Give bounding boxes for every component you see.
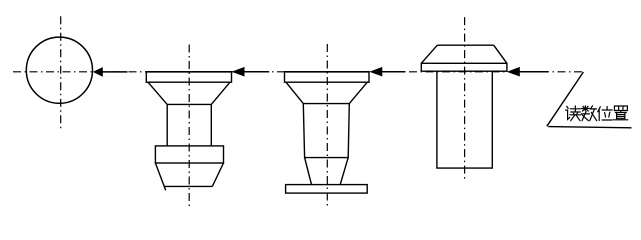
arrow 3 head bbox=[369, 67, 382, 77]
arrow 4 head bbox=[507, 67, 520, 77]
vertical centerline of stage 2 bbox=[326, 44, 328, 206]
stage 2 cone (trapezoid) bbox=[286, 82, 367, 103]
stage 3 head top bbox=[437, 44, 493, 46]
arrow 2 head bbox=[232, 67, 245, 77]
horizontal axis centerline (dash-dot through all stages) bbox=[13, 71, 583, 73]
glyph 数 bbox=[581, 106, 596, 121]
stage 1 flange (top rectangle) bbox=[146, 72, 231, 82]
vertical centerline of stage 3 bbox=[464, 17, 466, 179]
stage 1 bottom taper bbox=[155, 163, 223, 190]
stage 2 lower taper bbox=[305, 158, 349, 185]
leader underline bbox=[548, 127, 631, 128]
stage 1 collar bbox=[155, 146, 223, 163]
arrow 3 shaft (into stage 2) bbox=[382, 71, 405, 73]
stage 2 bottom flange bbox=[286, 185, 368, 194]
glyph 置 bbox=[613, 106, 627, 120]
blank circle (wire stock, stage 0) bbox=[26, 37, 92, 103]
label text 读数位置 (hand-drawn glyphs) bbox=[566, 106, 628, 121]
stage 3 head band bbox=[421, 63, 507, 71]
stage 1 cone (trapezoid) bbox=[148, 82, 230, 104]
stage 2 stem (slightly tapered) bbox=[303, 104, 349, 158]
arrow 4 shaft (into stage 3) bbox=[520, 71, 549, 73]
stage 2 flange top edge bbox=[284, 71, 370, 73]
leader slant line bbox=[547, 72, 584, 126]
stage 1 stem bbox=[167, 104, 211, 145]
vertical centerline of stage 1 bbox=[188, 45, 190, 209]
stage 2 flange (top rectangle) bbox=[285, 72, 370, 82]
arrow 1 head bbox=[93, 67, 103, 77]
vertical centerline of circle bbox=[60, 16, 62, 131]
glyph 位 bbox=[598, 107, 612, 121]
stage 3 body bbox=[437, 71, 492, 168]
glyph 读 bbox=[566, 106, 581, 121]
arrow 1 shaft (into circle) bbox=[102, 71, 128, 73]
stage 1 flange top edge bbox=[146, 71, 233, 73]
arrow 2 shaft (into stage 1) bbox=[244, 71, 269, 73]
stage 3 head slant sides bbox=[421, 45, 507, 63]
